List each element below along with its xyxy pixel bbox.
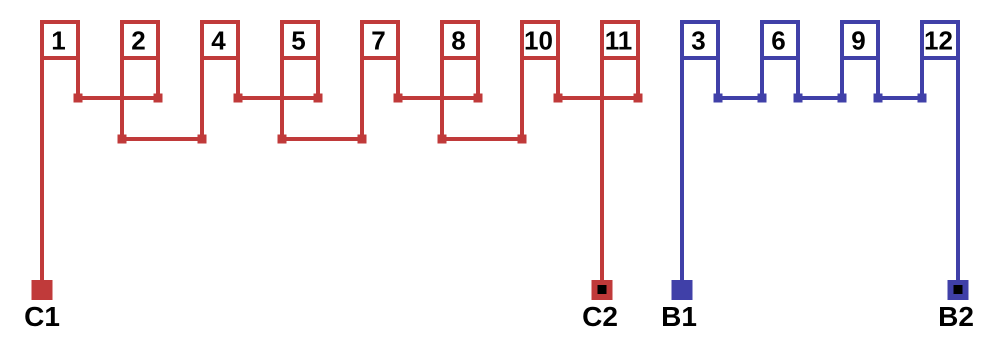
svg-text:C1: C1: [24, 301, 60, 332]
svg-text:6: 6: [771, 25, 785, 55]
svg-text:9: 9: [851, 25, 865, 55]
svg-text:7: 7: [371, 25, 385, 55]
svg-text:5: 5: [291, 25, 305, 55]
svg-text:1: 1: [51, 25, 65, 55]
svg-text:8: 8: [451, 25, 465, 55]
svg-text:2: 2: [131, 25, 145, 55]
svg-text:10: 10: [524, 25, 553, 55]
svg-text:3: 3: [691, 25, 705, 55]
svg-text:B2: B2: [938, 301, 974, 332]
svg-text:11: 11: [605, 25, 633, 55]
svg-text:4: 4: [211, 25, 226, 55]
svg-text:B1: B1: [661, 301, 697, 332]
svg-text:12: 12: [924, 25, 953, 55]
svg-text:C2: C2: [582, 301, 618, 332]
